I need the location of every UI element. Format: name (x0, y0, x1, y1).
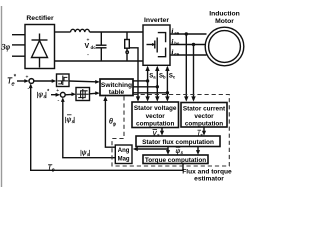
svg-text:-: - (87, 53, 89, 59)
wire: psi_s to Ang/Mag block (133, 147, 168, 152)
switching table block (100, 79, 133, 96)
wire: flux reference into summing junction (51, 93, 60, 97)
svg-text:i: i (172, 28, 174, 35)
svg-text:Stator current: Stator current (183, 105, 226, 112)
stator voltage vector computation block (132, 102, 179, 128)
label Sa (149, 74, 156, 80)
svg-text:i: i (172, 49, 174, 56)
node: Sa junction (146, 79, 149, 82)
svg-text:3φ: 3φ (1, 43, 11, 52)
summing junction: flux error (60, 92, 65, 97)
wire: flux magnitude feedback to flux summing junction (61, 97, 115, 158)
induction motor M (205, 11, 244, 66)
label flux reference |psi_s|* (37, 89, 51, 99)
wire: Sc gating signal (133, 66, 170, 102)
wire: DC+ rail (55, 31, 144, 33)
svg-text:i: i (172, 39, 174, 46)
svg-text:table: table (109, 89, 125, 96)
label theta_psi (109, 119, 117, 127)
label is_bar (198, 130, 204, 137)
svg-text:as: as (174, 30, 180, 35)
wire: flux comparator output to switching table (90, 91, 100, 95)
svg-text:|ψ: |ψ (80, 149, 87, 156)
wire: Vdc sense tap down to voltage computation (129, 48, 140, 102)
label |psi_s| (magnitude) (80, 149, 91, 157)
svg-text:Stator voltage: Stator voltage (134, 105, 177, 112)
wire: psi_s to torque computation (left) (166, 149, 170, 155)
wire: torque comparator output to switching table (69, 80, 100, 84)
wire: DC- rail (55, 60, 144, 62)
svg-text:Torque computation: Torque computation (145, 157, 206, 164)
wire: torque reference into summing junction (17, 79, 29, 83)
label i_cs (172, 49, 180, 56)
svg-text:vector: vector (146, 113, 166, 120)
svg-text:Flux and torque: Flux and torque (182, 169, 232, 176)
svg-text:Switching: Switching (101, 82, 132, 89)
hysteresis comparator: flux (2-level) (76, 88, 90, 101)
svg-text:Mag: Mag (118, 157, 130, 163)
stator flux computation block (136, 136, 220, 147)
svg-text:+: + (56, 88, 59, 94)
svg-text:e: e (52, 167, 55, 173)
capacitor C (DC link) (96, 32, 107, 61)
svg-text:dc: dc (91, 45, 97, 50)
wire: phase a to motor (170, 33, 207, 35)
rectifier block (25, 15, 55, 69)
node: Sb junction (156, 85, 159, 88)
svg-text:|ψ: |ψ (37, 92, 44, 99)
wire: ia sense down to current computation (184, 34, 188, 102)
wire: is to flux computation (202, 127, 206, 136)
wire: Sa gating signal (133, 66, 150, 102)
svg-text:estimator: estimator (194, 176, 224, 183)
label Te (feedback) (48, 165, 55, 174)
svg-text:|: | (89, 149, 91, 156)
svg-text:computation: computation (136, 121, 174, 128)
label i_bs (172, 39, 180, 46)
wire: flux angle theta to switching table (103, 96, 115, 147)
wire: psi_s to torque computation (right) (196, 147, 200, 155)
svg-text:b: b (163, 75, 166, 80)
svg-text:+: + (26, 74, 29, 80)
wire: Sb gating signal (133, 66, 160, 102)
hysteresis comparator: torque (3-level) (57, 74, 70, 87)
label i_as (172, 28, 180, 35)
svg-text:Rectifier: Rectifier (26, 15, 54, 22)
wire: vs to flux computation (160, 128, 164, 136)
label Sc (169, 74, 176, 80)
svg-text:cs: cs (174, 51, 180, 56)
svg-text:ψ: ψ (176, 148, 181, 155)
Ang/Mag block (115, 145, 132, 164)
label |psi_s_bar| (feedback) (65, 115, 76, 124)
inverter block (143, 17, 170, 65)
flux and torque estimator boundary (dashed) (112, 95, 229, 167)
svg-text:Ang: Ang (118, 148, 130, 154)
transistor Q (inverter IGBT symbol) (147, 33, 166, 57)
inductor L (DC link choke) (71, 29, 90, 32)
svg-text:computation: computation (185, 120, 223, 127)
svg-text:vector: vector (194, 113, 214, 120)
svg-text:bs: bs (174, 41, 180, 46)
wire: torque feedback Te to torque summing junction (29, 83, 183, 170)
label Vdc (85, 38, 97, 59)
label psi_s_bar (176, 147, 184, 155)
svg-text:Inverter: Inverter (144, 17, 169, 24)
svg-text:Motor: Motor (215, 18, 234, 25)
wire: phase c to motor (170, 54, 207, 56)
label Te* (torque reference) (7, 75, 17, 88)
wire: flux error to hysteresis comparator (65, 92, 76, 96)
resistor R (DC link) (125, 32, 130, 61)
svg-text:Stator flux computation: Stator flux computation (142, 139, 214, 146)
svg-text:-: - (57, 98, 59, 104)
node: Sc junction (166, 91, 169, 94)
node: phase-b current tap (192, 43, 195, 46)
label Sb (159, 74, 166, 80)
svg-text:|ψ: |ψ (65, 117, 72, 124)
wire: ib sense down to current computation (191, 45, 195, 102)
svg-text:e: e (12, 82, 15, 88)
diode D (rectifier symbol) (32, 34, 48, 68)
svg-text:|: | (73, 117, 75, 124)
wire: 3-phase input lines (12, 35, 25, 57)
torque computation block (143, 155, 208, 164)
svg-text:-: - (27, 86, 29, 92)
svg-text:Induction: Induction (209, 11, 240, 18)
node: phase-a current tap (185, 32, 188, 35)
wire: phase b to motor (170, 44, 206, 46)
figure left edge line (1, 6, 3, 187)
summing junction: torque error (29, 79, 34, 84)
svg-text:V: V (85, 43, 90, 50)
wire: torque error to hysteresis comparator (34, 79, 57, 83)
label flux and torque estimator (182, 169, 232, 183)
label vs_bar (153, 130, 161, 138)
stator current vector computation block (181, 103, 227, 128)
